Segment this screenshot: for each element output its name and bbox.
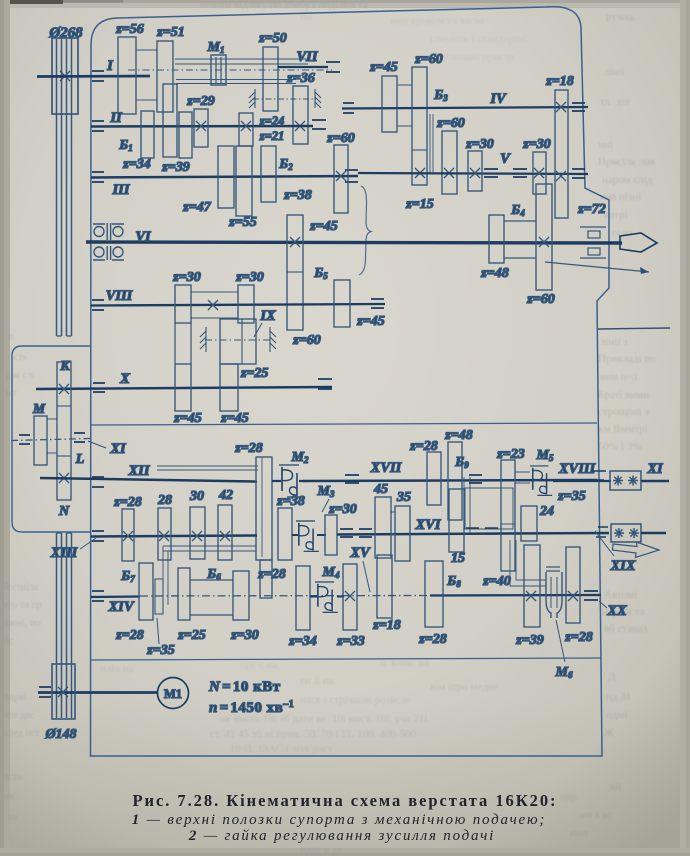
svg-text:z=55: z=55 — [228, 215, 256, 230]
svg-text:30: 30 — [189, 489, 204, 504]
svg-text:z=47: z=47 — [182, 200, 211, 215]
gear z=34 on XIV — [296, 566, 310, 630]
svg-text:z=45: z=45 — [369, 60, 397, 75]
gear z=45 on VIII — [334, 280, 350, 327]
svg-text:1 — верхні полозки супорта з м: 1 — верхні полозки супорта з механічною … — [132, 812, 546, 828]
gear 45 — [375, 497, 391, 558]
svg-text:XVI: XVI — [415, 517, 442, 533]
svg-text:z=45: z=45 — [356, 314, 384, 329]
svg-text:z=39: z=39 — [515, 633, 543, 648]
shaft XII — [40, 478, 257, 482]
gear z=56 — [118, 37, 136, 114]
svg-text:М: М — [32, 401, 46, 416]
svg-text:z=34: z=34 — [288, 634, 316, 649]
shaft XX bearing and label — [584, 591, 598, 600]
svg-text:15: 15 — [451, 551, 465, 566]
svg-text:пв: пв — [4, 792, 14, 803]
gear z=25 on XIV — [178, 568, 190, 620]
svg-text:z=60: z=60 — [526, 292, 554, 307]
headstock/gearbox main frame outline — [91, 7, 610, 756]
svg-text:z=56: z=56 — [115, 22, 143, 37]
svg-text:z=35: z=35 — [146, 643, 174, 658]
shaft V — [358, 173, 588, 174]
gear z=33 on XIV — [343, 564, 357, 630]
svg-text:z=30: z=30 — [465, 137, 493, 152]
svg-text:z=21: z=21 — [259, 129, 285, 143]
svg-text:24: 24 — [539, 504, 554, 519]
svg-text:N: N — [58, 504, 70, 519]
gear z=60 on VI — [536, 184, 552, 290]
svg-text:z=30: z=30 — [328, 502, 356, 517]
svg-text:z=45: z=45 — [173, 411, 201, 426]
svg-text:XII: XII — [128, 463, 151, 479]
svg-text:42: 42 — [218, 488, 233, 503]
gear z=18 — [377, 555, 392, 618]
gear z=48 on XVII — [448, 442, 462, 520]
svg-text:совують і стандартні: совують і стандартні — [430, 33, 527, 45]
gear 28 on XIII — [158, 508, 171, 560]
gear z=28 on XIII — [122, 509, 134, 561]
gear z=45 on IV — [382, 76, 397, 132]
gear z=60 second — [442, 131, 457, 194]
gear z=48 on VI — [489, 215, 504, 263]
svg-text:IX: IX — [259, 308, 276, 324]
connector to M5 — [515, 472, 530, 483]
svg-text:z=60: z=60 — [414, 52, 442, 67]
left reverse-gear housing — [12, 346, 91, 532]
sleeve lines on XII — [157, 466, 258, 470]
svg-text:z=15: z=15 — [405, 197, 433, 212]
svg-text:XI: XI — [109, 441, 127, 457]
svg-text:Прикладі по: Прикладі по — [598, 353, 656, 365]
svg-text:35: 35 — [396, 490, 411, 505]
svg-text:z=45: z=45 — [220, 411, 248, 426]
svg-text:ст. 41 45 зб ні прив. 50. 70-і: ст. 41 45 зб ні прив. 50. 70-і 11. 100. … — [210, 728, 416, 740]
svg-text:лінії з: лінії з — [600, 336, 628, 348]
gear z=30 on VIII — [175, 285, 191, 323]
svg-text:z=60: z=60 — [292, 333, 320, 348]
svg-text:X: X — [119, 371, 130, 387]
svg-text:вня пізні: вня пізні — [600, 191, 641, 203]
clutch M1 — [211, 55, 226, 85]
svg-text:підп: підп — [612, 227, 633, 239]
sleeve z=35 — [155, 579, 163, 614]
gear z=45 on X — [175, 364, 191, 411]
clutch M3 — [292, 534, 326, 536]
svg-text:пліч на: пліч на — [100, 663, 134, 675]
gear 24 — [521, 506, 537, 541]
svg-text:z=39: z=39 — [161, 160, 189, 175]
gear z=47 — [218, 146, 234, 208]
spindle front bearings — [93, 223, 124, 260]
gear z=60 on III — [334, 145, 348, 213]
gear z=30 second on VIII — [238, 285, 254, 323]
clutch M5 — [530, 466, 552, 495]
svg-text:п: п — [8, 332, 14, 343]
svg-text:VIII: VIII — [106, 288, 134, 304]
gear block z=45/z=60 on VI — [287, 215, 303, 330]
svg-text:z=60: z=60 — [436, 116, 464, 131]
svg-text:z=25: z=25 — [240, 366, 268, 381]
link z30 down to z45 — [175, 323, 191, 364]
svg-text:z=18: z=18 — [372, 618, 400, 633]
sliding block z=18 / z=72 — [555, 90, 568, 218]
svg-text:z=30: z=30 — [172, 270, 200, 285]
gear z=29 — [194, 109, 208, 147]
svg-text:z=30: z=30 — [235, 270, 263, 285]
edge shading top — [0, 0, 690, 8]
shaft XIII — [91, 536, 257, 537]
overrunning clutch M6 — [546, 567, 560, 571]
svg-text:z=40: z=40 — [482, 574, 510, 589]
feed takeoff arrow — [545, 262, 649, 272]
gear z=55 — [236, 146, 252, 216]
svg-text:пасв і стрічкові розведе: пасв і стрічкові розведе — [300, 694, 410, 706]
gear z=30 on V — [468, 151, 482, 191]
feed box top divider — [91, 423, 597, 425]
svg-text:VII: VII — [297, 49, 319, 65]
svg-text:вим кроком та засто: вим кроком та засто — [390, 15, 484, 27]
gear 30 on XIII — [190, 507, 205, 559]
gear M on XI — [34, 416, 47, 465]
svg-text:М1: М1 — [164, 687, 182, 701]
svg-text:строщоні з: строщоні з — [598, 406, 649, 418]
clutch M2 — [272, 480, 305, 482]
svg-text:z=48: z=48 — [480, 266, 508, 281]
svg-text:z=25: z=25 — [177, 628, 205, 643]
svg-text:котрі: котрі — [604, 209, 628, 221]
svg-text:лінії: лінії — [604, 66, 625, 78]
feed box bottom divider — [91, 658, 602, 660]
svg-text:N = 10 кВт: N = 10 кВт — [208, 679, 281, 695]
gear 42 on XIII — [218, 505, 232, 560]
idler gear z=24 — [239, 113, 253, 146]
edge shading right — [680, 0, 690, 856]
svg-text:XIX: XIX — [610, 558, 636, 574]
shift rails — [163, 546, 256, 551]
svg-text:звені, по: звені, по — [4, 618, 41, 629]
svg-text:Автомі: Автомі — [604, 589, 637, 601]
svg-text:XI: XI — [646, 461, 664, 477]
gear z=51 — [157, 41, 173, 112]
svg-text:z=28: z=28 — [113, 495, 141, 510]
pulley D268 — [52, 38, 78, 114]
svg-text:всти: всти — [4, 772, 23, 783]
friction sleeve B1 — [141, 111, 154, 158]
svg-text:z=30: z=30 — [522, 137, 550, 152]
svg-text:ви її на: ви її на — [300, 675, 334, 687]
svg-text:z=30: z=30 — [230, 628, 258, 643]
spindle VI — [86, 242, 622, 243]
svg-text:50% і 3%: 50% і 3% — [598, 441, 641, 453]
shift linkage z40 to M6 — [510, 540, 546, 586]
shaft XVIII — [553, 480, 611, 482]
svg-text:веного відліку по лімбу і поді: веного відліку по лімбу і поділки та — [200, 0, 368, 11]
figure caption — [132, 791, 558, 844]
svg-text:V: V — [500, 151, 511, 167]
pulley D148 — [52, 664, 75, 719]
shaft II — [91, 125, 313, 128]
sleeve between z30 gears — [191, 292, 238, 318]
svg-text:сть: сть — [14, 352, 28, 363]
svg-text:XV: XV — [349, 545, 371, 561]
svg-text:z=34: z=34 — [122, 157, 150, 172]
svg-text:II: II — [109, 110, 123, 126]
gear 35 — [395, 506, 410, 561]
dark scan bar top-left — [10, 0, 63, 4]
svg-text:z=29: z=29 — [186, 94, 214, 109]
gear z=34 — [179, 112, 192, 158]
svg-text:10 П. 13АС і літе раст: 10 П. 13АС і літе раст — [230, 743, 333, 755]
gear 15 column — [449, 489, 464, 552]
sliding block z=28 on XII — [256, 457, 272, 560]
svg-text:XX: XX — [606, 603, 627, 619]
shaft II right bearing — [312, 120, 326, 129]
gear B8 — [425, 561, 443, 627]
gear z=36 — [293, 86, 308, 144]
svg-text:XVIII: XVIII — [558, 461, 597, 477]
svg-text:45: 45 — [373, 482, 388, 497]
motor shaft — [38, 691, 157, 694]
svg-text:z=28: z=28 — [409, 439, 437, 454]
svg-text:z=48: z=48 — [444, 428, 472, 443]
svg-text:след пст: след пст — [4, 728, 40, 739]
overload stub shaft IX — [205, 339, 273, 341]
gear z=45 second on X — [220, 364, 238, 411]
svg-text:z=23: z=23 — [496, 447, 524, 462]
idler stub axle with wall hatches — [253, 98, 316, 100]
shaft III — [91, 176, 358, 178]
gear z=30 on XVI left — [325, 515, 337, 555]
svg-text:2 — гайка регулювання зусилля: 2 — гайка регулювання зусилля подачі — [188, 828, 495, 844]
svg-text:z=60: z=60 — [326, 131, 354, 146]
svg-text:км Вммтрі: км Вммтрі — [598, 423, 648, 435]
gear z=30 second on V — [533, 152, 546, 194]
svg-text:Ø148: Ø148 — [44, 727, 76, 742]
hollow feed arrow — [613, 542, 660, 558]
shaft XVI — [337, 533, 609, 535]
block tie z56-z51 — [136, 50, 157, 100]
svg-text:VI: VI — [135, 229, 152, 245]
shaft XIV — [91, 595, 140, 598]
svg-text:z=38: z=38 — [276, 494, 304, 509]
chuck flange — [580, 227, 606, 258]
svg-text:пвр: пвр — [560, 791, 577, 803]
shaft X — [36, 387, 332, 389]
svg-text:z=28: z=28 — [564, 630, 592, 645]
svg-text:Браті вими: Браті вими — [598, 389, 649, 401]
svg-text:z=28: z=28 — [234, 441, 262, 456]
svg-text:пд 31: пд 31 — [606, 691, 631, 703]
hollow shaft VII thin lines — [175, 59, 308, 64]
svg-text:z=18: z=18 — [545, 74, 573, 89]
svg-text:z=38: z=38 — [283, 188, 311, 203]
svg-text:Ø268: Ø268 — [48, 25, 83, 41]
belt of main drive — [57, 39, 72, 718]
svg-text:пдвт в дв: пдвт в дв — [300, 844, 343, 856]
svg-text:Рис. 7.28. Кінематична схема в: Рис. 7.28. Кінематична схема верстата 16… — [133, 791, 558, 810]
motor M1 — [158, 678, 189, 709]
svg-text:его тл пр: его тл пр — [4, 600, 42, 611]
edge shading bottom — [0, 848, 690, 856]
svg-text:z=51: z=51 — [156, 25, 184, 40]
svg-text:z=28: z=28 — [418, 632, 446, 647]
svg-text:пдмі: пдмі — [606, 709, 628, 721]
gear block z=60/z=15 — [412, 67, 427, 185]
gear z=39 — [163, 84, 177, 157]
svg-text:Д: Д — [608, 671, 616, 683]
svg-text:пре с на: пре с на — [240, 659, 278, 671]
svg-text:z=28: z=28 — [115, 628, 143, 643]
svg-text:Присілк лив: Присілк лив — [598, 156, 655, 168]
curly brace part-1 marker — [359, 186, 371, 275]
shaft VIII — [91, 304, 385, 306]
universal joint to XI — [610, 471, 641, 490]
svg-text:K: K — [59, 359, 71, 374]
svg-text:XVII: XVII — [370, 460, 403, 476]
gear z=28 last — [566, 547, 580, 623]
svg-text:z=45: z=45 — [309, 219, 337, 234]
gear z=39 — [524, 545, 540, 627]
svg-text:ве: ве — [8, 812, 18, 823]
universal joint to XIX — [596, 527, 608, 537]
svg-text:вй: вй — [610, 781, 621, 793]
svg-text:z=24: z=24 — [259, 114, 285, 128]
block z=28 lower — [260, 560, 272, 598]
shaft I axis dash-dot — [128, 69, 332, 71]
svg-text:III: III — [112, 182, 131, 198]
svg-text:z=36: z=36 — [286, 71, 314, 86]
svg-text:Ж: Ж — [604, 727, 614, 739]
gear z=50 — [263, 47, 278, 111]
shaft VII — [278, 66, 328, 68]
svg-text:дмі слі: дмі слі — [6, 370, 35, 381]
svg-text:z=35: z=35 — [557, 489, 585, 504]
shaft IV — [342, 107, 588, 109]
spindle nose arrow — [620, 233, 657, 252]
shaft I — [37, 75, 150, 78]
svg-text:нні: нні — [598, 139, 613, 151]
svg-text:XIV: XIV — [108, 599, 135, 615]
svg-text:вм з вс: вм з вс — [580, 809, 612, 821]
svg-text:вім дас: вім дас — [4, 710, 35, 721]
svg-text:ручна.: ручна. — [606, 11, 636, 23]
svg-text:вім іпро медве: вім іпро медве — [430, 681, 498, 693]
svg-text:z=28: z=28 — [257, 567, 285, 582]
svg-text:й стніла: й стніла — [4, 582, 39, 593]
shaft XVII — [303, 480, 597, 481]
svg-text:тл. діл: тл. діл — [600, 96, 630, 108]
gear z=23 column — [501, 460, 515, 571]
B9 sleeve box — [465, 488, 513, 529]
svg-text:L: L — [75, 452, 85, 467]
shaft XI — [11, 439, 90, 441]
svg-text:n = 1450 хв–1: n = 1450 хв–1 — [209, 699, 294, 716]
svg-text:ділильні присто: ділильні присто — [440, 51, 515, 63]
svg-text:наром слід: наром слід — [602, 174, 653, 186]
svg-text:вим п=1: вим п=1 — [600, 371, 638, 383]
svg-text:XIII: XIII — [50, 545, 79, 561]
edge shading left — [0, 0, 10, 856]
svg-text:z=72: z=72 — [577, 202, 605, 217]
gear block on IX — [220, 319, 256, 364]
svg-text:28: 28 — [157, 493, 172, 508]
lead screw line exiting right — [598, 328, 670, 329]
svg-text:IV: IV — [489, 91, 507, 107]
gear z=28 on XVII — [427, 452, 441, 505]
svg-text:z=33: z=33 — [336, 634, 364, 649]
svg-text:вб станах: вб станах — [604, 623, 649, 635]
svg-text:бс: бс — [4, 636, 14, 647]
gear block B2 / z=38 — [261, 146, 276, 202]
reverse block K-L-N — [57, 362, 71, 500]
clutch M4 — [310, 596, 344, 598]
svg-text:пвм: пвм — [570, 827, 588, 839]
gear z=30 on XIV — [233, 571, 249, 620]
svg-text:впрві: впрві — [4, 692, 27, 703]
gear z=38 under M2 — [278, 508, 292, 560]
svg-text:z=50: z=50 — [258, 31, 286, 46]
